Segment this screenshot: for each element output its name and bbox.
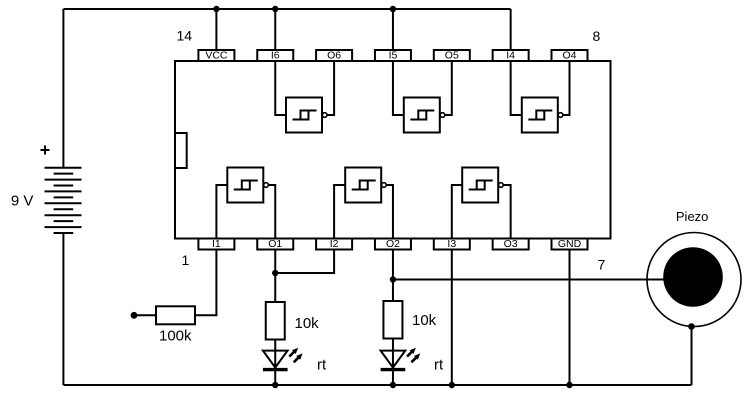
wire rail to I5 pin [392,9,394,50]
svg-text:I1: I1 [212,238,221,250]
svg-text:rt: rt [434,357,444,374]
node junction O1/I2 [272,270,278,276]
svg-text:1: 1 [182,252,190,268]
pin I1 [198,238,234,250]
wire U1F output [327,61,334,115]
node touch contact [131,312,138,319]
op-amp gate U1D (Schmitt inverter) [522,98,558,133]
wire rail to VCC pin [215,9,217,50]
op-amp gate U1E (Schmitt inverter) [404,98,440,133]
pin O3 [493,238,529,250]
wire top power rail [63,8,510,10]
node junction I3/ground rail [449,382,455,388]
battery plus sign [41,146,50,155]
svg-text:Piezo: Piezo [676,209,709,224]
wire U1B input [334,185,345,239]
battery B1 9V [45,168,82,233]
wire U1A output [269,185,276,239]
wire rail to I6 pin [274,9,276,50]
node junction GND/ground rail [566,382,572,388]
wire U1D output [563,61,570,115]
wire U1E input [393,61,404,115]
svg-text:I5: I5 [389,50,398,62]
wire U1E output [445,61,452,115]
wire R2 through D1 to ground rail [274,340,276,386]
pin VCC [198,50,234,62]
resistor R1 100k [156,306,195,324]
wire U1C output [503,185,510,239]
wire I1 to R1 [195,250,216,316]
wire GND pin to ground rail [569,250,571,386]
resistor R3 10k [383,301,402,339]
svg-text:O2: O2 [386,238,400,250]
pin I4 [493,50,529,62]
svg-text:I6: I6 [271,50,280,62]
svg-text:O3: O3 [504,238,518,250]
LED D2 [381,351,406,370]
svg-text:O1: O1 [268,238,282,250]
wire U1C input [452,185,462,239]
wire U1F input [275,61,286,115]
wire ground rail [63,384,691,386]
svg-text:rt: rt [317,357,327,374]
resistor R2 10k [266,302,285,340]
pin I6 [257,50,293,62]
op-amp gate U1C (Schmitt inverter) [462,168,498,203]
IC U1 notch marker [175,133,187,168]
pin O4 [552,50,588,62]
piezo transducer disc [663,247,723,307]
LED D2 emission arrows [407,348,420,363]
op-amp gate U1A (Schmitt inverter) [227,168,263,203]
node junction D2/ground rail [390,382,396,388]
svg-text:VCC: VCC [205,50,228,62]
wire I3 to ground rail [451,250,453,386]
wire O1 down to R2 [274,250,276,303]
svg-text:7: 7 [598,257,606,273]
pin GND [552,238,588,250]
pin I2 [316,238,352,250]
pin O1 [257,238,293,250]
svg-text:O4: O4 [562,50,576,62]
wire battery positive to top rail [62,9,64,168]
wire U1B output [386,185,393,239]
svg-text:14: 14 [177,28,193,44]
svg-text:O5: O5 [445,50,459,62]
svg-text:I3: I3 [447,238,456,250]
svg-text:I2: I2 [330,238,339,250]
pin O2 [375,238,411,250]
inverter bubble U1A [264,183,269,188]
node junction rail/I6 [272,6,278,12]
LED D1 [263,351,288,370]
pin I5 [375,50,411,62]
svg-text:100k: 100k [159,328,192,345]
node junction rail/I5 [390,6,396,12]
inverter bubble U1B [382,183,387,188]
pin O6 [316,50,352,62]
piezo transducer outer ring [647,233,741,327]
wire I2 to O1 junction [275,250,334,274]
inverter bubble U1C [499,183,504,188]
wire battery negative to ground rail [62,233,64,385]
wire O2 down to R3 [392,250,394,302]
svg-text:10k: 10k [412,312,437,329]
node junction D1/ground rail [272,382,278,388]
svg-text:10k: 10k [295,315,320,332]
svg-text:GND: GND [558,238,582,250]
wire R3 through D2 to ground rail [392,339,394,386]
svg-text:9 V: 9 V [11,192,34,209]
LED D1 emission arrows [289,348,302,363]
node junction O2/piezo [390,276,396,282]
node piezo bottom terminal [688,323,695,330]
wire U1D input [511,61,522,115]
wire rail to I4 pin [510,9,512,50]
IC U1 body (hex Schmitt inverter) [175,61,611,239]
pin O5 [434,50,470,62]
wire O2 junction to piezo [393,279,666,281]
wire U1A input [216,185,227,239]
inverter bubble U1F [322,113,327,118]
svg-text:O6: O6 [327,50,341,62]
node junction rail/VCC [213,6,219,12]
wire R1 to touch contact [136,314,156,316]
inverter bubble U1E [440,113,445,118]
inverter bubble U1D [558,113,563,118]
svg-text:8: 8 [593,28,601,44]
wire piezo to ground rail [691,327,693,386]
svg-text:I4: I4 [506,50,515,62]
op-amp gate U1F (Schmitt inverter) [286,98,322,133]
op-amp gate U1B (Schmitt inverter) [345,168,381,203]
pin I3 [434,238,470,250]
